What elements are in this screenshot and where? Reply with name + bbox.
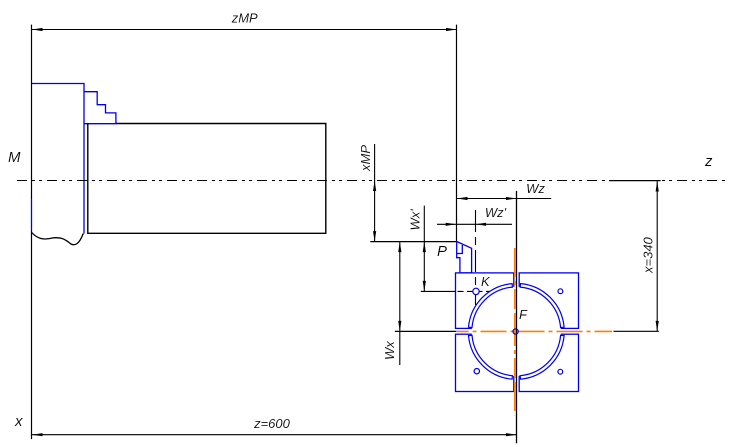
- tool (blue): [457, 242, 472, 273]
- x=340 extension line at z axis level: [609, 180, 660, 182]
- svg-text:z: z: [704, 153, 713, 170]
- svg-text:zMP: zMP: [231, 11, 258, 26]
- svg-text:x: x: [14, 413, 23, 430]
- x=340 dimension: [641, 181, 659, 331]
- svg-text:Wx': Wx': [408, 209, 423, 231]
- bottom-left corner hole: [474, 369, 479, 374]
- svg-text:K: K: [481, 274, 491, 289]
- K vertical dashed line: [475, 210, 477, 305]
- Wz' dimension: [437, 205, 512, 226]
- x axis vertical line through F (black): [516, 191, 518, 443]
- svg-text:Wx: Wx: [382, 341, 397, 360]
- chuck break line (wavy): [31, 232, 83, 245]
- x=340 extension line at F level: [614, 330, 659, 332]
- svg-text:x=340: x=340: [641, 236, 656, 274]
- svg-text:z=600: z=600: [253, 416, 291, 431]
- workpiece (black rectangle): [88, 124, 326, 234]
- svg-text:F: F: [519, 307, 528, 322]
- Wx' dimension: [408, 206, 426, 292]
- zMP dimension: [32, 11, 457, 32]
- svg-text:M: M: [8, 149, 21, 166]
- z=600 dimension: [32, 416, 516, 436]
- svg-text:Wz: Wz: [526, 181, 545, 196]
- xMP dimension: [358, 144, 376, 242]
- Wx dimension: [382, 242, 401, 365]
- svg-text:Wz': Wz': [485, 205, 507, 220]
- F level extension line (left, black): [395, 330, 457, 332]
- P level extension line: [370, 241, 456, 243]
- svg-text:xMP: xMP: [358, 145, 373, 172]
- faceplate quadrant plates (4 blue squares): [456, 273, 579, 392]
- faceplate ring (quarter annulus arcs): [469, 284, 565, 380]
- F vertical centerline (orange): [514, 248, 516, 415]
- svg-text:P: P: [437, 243, 447, 260]
- F horizontal centerline (orange): [457, 330, 612, 332]
- K hole (top-left corner hole): [473, 288, 479, 294]
- Wz dimension: [457, 181, 551, 200]
- K level extension line (solid then dashed): [421, 290, 495, 292]
- F center mark (blue circle): [513, 329, 518, 334]
- spindle back line (left vertical extension through M): [31, 25, 33, 440]
- chuck body (blue outline): [32, 84, 117, 234]
- P extension vertical (right extension line of zMP): [456, 25, 458, 242]
- top-right corner hole: [558, 289, 563, 294]
- faceplate bore mask (white): [472, 287, 561, 376]
- z-axis centerline (dash-dot-dot): [17, 180, 725, 182]
- bottom-right corner hole: [558, 369, 563, 374]
